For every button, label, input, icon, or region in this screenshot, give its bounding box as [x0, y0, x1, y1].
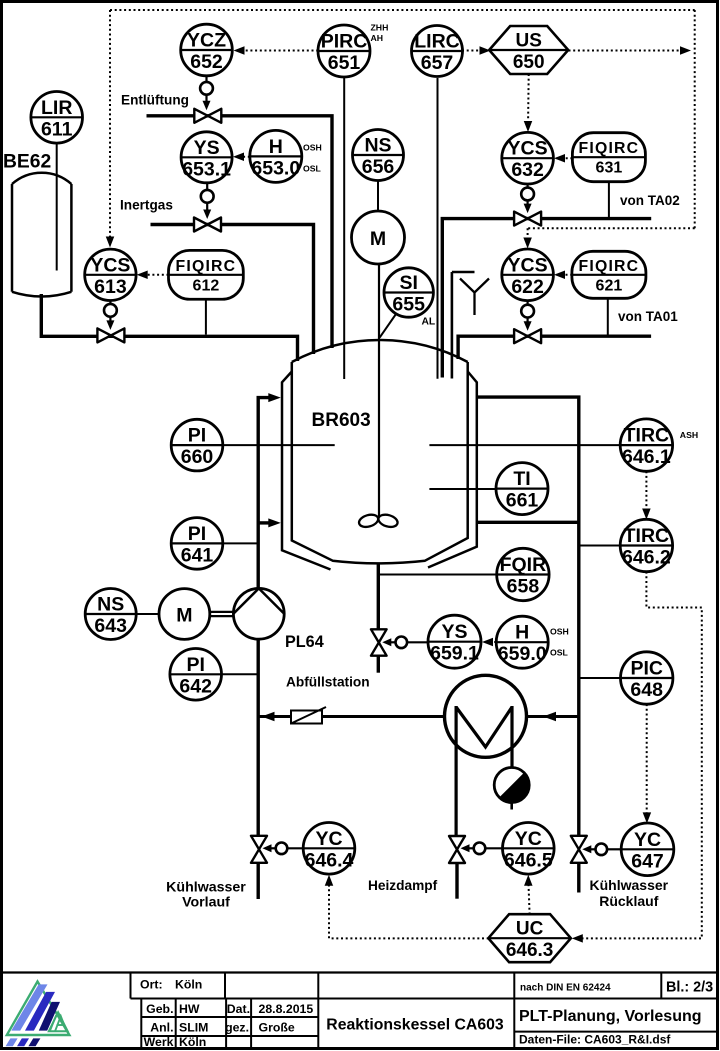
signal line UC646.3 to YC646.4: [325, 875, 489, 939]
svg-text:AL: AL: [422, 317, 436, 328]
label OSL 659: [550, 648, 569, 658]
signal line US650 to YCS632: [524, 74, 533, 132]
svg-text:nach DIN EN 62424: nach DIN EN 62424: [520, 983, 611, 994]
instrument PIRC 651: [318, 25, 370, 77]
signal line US650 output to right bus: [569, 46, 692, 55]
instrument TIRC 646.1: [620, 419, 672, 471]
svg-text:Daten-File: CA603_R&I.dsf: Daten-File: CA603_R&I.dsf: [519, 1033, 671, 1047]
svg-text:ZHH: ZHH: [371, 23, 389, 33]
svg-text:YCS: YCS: [508, 138, 548, 160]
signal line PIRC651 to YCZ652: [234, 46, 319, 55]
svg-text:612: 612: [193, 277, 220, 294]
svg-text:641: 641: [181, 544, 214, 566]
signal line PIC648 to YC647: [643, 704, 652, 823]
pump PL64: [233, 588, 284, 639]
instrument LIRC 657: [412, 26, 463, 77]
svg-text:661: 661: [506, 490, 539, 512]
title text Ort: [140, 978, 202, 992]
svg-text:613: 613: [94, 276, 127, 298]
signal line TIRC646.2 to UC646.3: [572, 572, 702, 943]
svg-text:658: 658: [507, 576, 540, 598]
arrow into HX: [543, 712, 556, 722]
svg-text:AH: AH: [371, 33, 384, 43]
svg-text:611: 611: [41, 118, 73, 140]
svg-text:Inertgas: Inertgas: [120, 198, 173, 213]
svg-text:646.2: 646.2: [622, 547, 671, 569]
svg-text:BR603: BR603: [312, 410, 371, 431]
actuator YCS622 valve: [521, 301, 534, 331]
line TI661 tap: [429, 488, 496, 490]
svg-text:Bl.: 2/3: Bl.: 2/3: [666, 980, 713, 996]
valve BE62 outlet: [97, 328, 124, 342]
svg-text:646.5: 646.5: [504, 849, 553, 871]
label Entlueftung: [121, 93, 189, 108]
svg-text:653.1: 653.1: [182, 158, 231, 180]
instrument YCS 622: [502, 249, 554, 301]
svg-text:631: 631: [596, 160, 623, 177]
instrument YCZ 652: [181, 24, 233, 76]
label Heizdampf: [368, 878, 438, 893]
label OSL 653: [303, 163, 322, 173]
svg-text:Anl.: Anl.: [150, 1021, 173, 1035]
instrument YCS 613: [85, 249, 136, 300]
svg-text:Vorlauf: Vorlauf: [182, 895, 230, 911]
label von TA01: [618, 309, 678, 324]
line FIQIRC621 stem: [607, 299, 609, 334]
signal line FIQIRC621 to YCS622: [554, 271, 572, 280]
svg-text:646.1: 646.1: [622, 446, 671, 468]
label BR603: [312, 410, 371, 431]
instrument PIC 648: [621, 652, 673, 704]
svg-text:YCZ: YCZ: [187, 30, 226, 52]
svg-text:FIQIRC: FIQIRC: [176, 258, 237, 275]
signal bus top horizontal: [110, 9, 695, 11]
instrument YS 653.1: [181, 132, 232, 183]
svg-text:YS: YS: [441, 621, 467, 643]
svg-text:Geb.: Geb.: [146, 1002, 173, 1016]
instrument YC 647: [621, 823, 674, 876]
pipe jacket outlet upper: [477, 397, 579, 836]
signal line FIQIRC631 to YCS632: [554, 154, 572, 163]
pipe jacket feed branch lower: [258, 521, 268, 524]
svg-text:650: 650: [513, 52, 545, 73]
svg-text:632: 632: [511, 159, 544, 181]
steam trap: [494, 768, 529, 810]
svg-text:NS: NS: [97, 594, 124, 616]
svg-text:Reaktionskessel CA603: Reaktionskessel CA603: [326, 1017, 504, 1034]
line PI660 tap: [223, 444, 335, 446]
sampling funnel: [460, 279, 489, 316]
pipe cooling water return below valve: [577, 863, 580, 893]
pipe funnel drain line: [452, 272, 475, 379]
heat exchanger shell: [445, 675, 527, 757]
svg-text:28.8.2015: 28.8.2015: [259, 1002, 314, 1016]
svg-text:621: 621: [596, 277, 623, 294]
pipe HX process left: [258, 715, 445, 718]
svg-text:Rücklauf: Rücklauf: [599, 893, 658, 909]
svg-text:659.0: 659.0: [498, 643, 547, 665]
svg-text:YC: YC: [515, 828, 542, 850]
instrument H 659.0: [496, 616, 548, 668]
line NS656 to motor: [377, 181, 379, 211]
restriction orifice: [291, 707, 326, 724]
pipe Inertgas: [151, 225, 314, 355]
signal bus right vertical: [694, 10, 696, 228]
svg-text:Köln: Köln: [175, 978, 202, 992]
svg-text:LIRC: LIRC: [414, 31, 460, 53]
svg-text:OSH: OSH: [550, 627, 569, 637]
pipe cooling water inlet below valve: [257, 863, 260, 899]
arrow HX process left: [262, 712, 275, 722]
label AH 651: [371, 33, 384, 43]
signal line UC646.3 to YC646.5: [524, 875, 533, 915]
title text PLT-Planung: [519, 1008, 702, 1025]
actuator YC647 valve: [582, 844, 621, 856]
instrument FQIR 658: [497, 548, 549, 600]
line TIRC646.2 tap: [579, 545, 620, 547]
line agitator shaft: [378, 264, 380, 518]
line FIQIRC612 stem: [205, 300, 207, 335]
pipe pump discharge to jacket: [258, 398, 268, 589]
arrow into jacket lower: [268, 518, 281, 527]
signal line bus to YCS613: [106, 10, 115, 248]
line TIRC646.1 tap: [429, 444, 620, 446]
line FQIR658 tap: [378, 574, 497, 576]
svg-text:H: H: [269, 136, 283, 158]
arrow into jacket upper: [268, 393, 281, 402]
instrument UC 646.3: [488, 914, 570, 962]
svg-text:von TA01: von TA01: [618, 309, 678, 324]
instrument YCS 632: [502, 132, 554, 184]
instrument LIR 611: [31, 92, 83, 144]
pipe jacket outlet lower: [477, 521, 579, 524]
svg-text:Werk: Werk: [144, 1035, 174, 1049]
actuator YCS613 valve: [104, 300, 117, 330]
svg-text:646.4: 646.4: [305, 849, 354, 871]
instrument TIRC 646.2: [620, 519, 672, 571]
svg-text:Kühlwasser: Kühlwasser: [590, 877, 669, 893]
instrument PI 642: [170, 649, 222, 701]
svg-text:OSL: OSL: [303, 163, 322, 173]
svg-text:LIR: LIR: [41, 97, 72, 119]
svg-text:656: 656: [362, 156, 395, 178]
valve von TA01: [514, 329, 541, 343]
svg-text:660: 660: [181, 446, 214, 468]
svg-text:653.0: 653.0: [251, 157, 300, 179]
instrument SI 655: [384, 268, 433, 317]
svg-text:Dat.: Dat.: [227, 1002, 250, 1016]
svg-text:PIRC: PIRC: [321, 31, 368, 53]
signal line H659.0 to YS659.1: [482, 638, 496, 647]
line LIR611 dip tube: [56, 143, 58, 271]
svg-text:655: 655: [392, 294, 425, 316]
vessel BR603 shell: [292, 362, 468, 563]
valve Entlueftung: [194, 109, 221, 123]
label ZHH 651: [371, 23, 389, 33]
pipe steam below valve: [455, 863, 458, 899]
svg-text:642: 642: [179, 675, 212, 697]
svg-text:643: 643: [94, 615, 127, 637]
valve steam: [449, 836, 465, 863]
line FIQIRC631 stem: [608, 182, 610, 217]
svg-text:Kühlwasser: Kühlwasser: [166, 880, 246, 896]
svg-text:Große: Große: [259, 1021, 295, 1035]
svg-text:NS: NS: [364, 135, 391, 157]
svg-text:PIC: PIC: [630, 658, 663, 680]
instrument PI 641: [171, 518, 223, 570]
label Kuehlwasser Vorlauf: [166, 880, 246, 911]
title block grid: [2, 973, 718, 1048]
svg-text:OSH: OSH: [303, 143, 322, 153]
line PI641 tap: [223, 542, 257, 544]
actuator YS653.1 valve: [201, 183, 214, 219]
line PIC648 tap: [579, 677, 621, 679]
pipe Entlueftung: [147, 116, 333, 348]
svg-text:YC: YC: [634, 829, 661, 851]
svg-text:659.1: 659.1: [430, 643, 479, 665]
motor M pump: [159, 589, 210, 640]
pipe BE62 outlet: [41, 294, 297, 361]
vessel BE62 shell: [12, 173, 71, 297]
title text Daten-File: [519, 1033, 671, 1047]
pipe HX process right: [527, 715, 579, 718]
label OSH 659: [550, 627, 569, 637]
logo triangles: [6, 982, 70, 1047]
label OSH 653: [303, 143, 322, 153]
line NS643 to motor: [136, 613, 159, 615]
svg-text:FQIR: FQIR: [500, 554, 547, 576]
actuator YCZ652 valve: [200, 76, 213, 111]
svg-text:646.3: 646.3: [506, 940, 554, 961]
instrument FIQIRC 631: [572, 133, 645, 182]
svg-text:622: 622: [511, 276, 544, 298]
valve cooling water return: [571, 836, 587, 863]
svg-text:657: 657: [421, 52, 454, 74]
title text Geb row: [146, 1002, 313, 1016]
svg-text:M: M: [370, 228, 386, 250]
signal line H653.0 to YS653.1: [233, 153, 250, 162]
instrument YC 646.5: [503, 823, 555, 875]
label Kuehlwasser Ruecklauf: [590, 877, 669, 909]
svg-text:US: US: [515, 31, 541, 52]
svg-text:Ort:: Ort:: [140, 978, 163, 992]
title text Reaktionskessel: [326, 1017, 504, 1034]
instrument NS 656: [353, 130, 404, 181]
svg-text:HW: HW: [179, 1002, 200, 1016]
svg-text:YS: YS: [194, 137, 220, 159]
actuator YC646.5 valve: [461, 843, 503, 855]
label PL64: [285, 633, 324, 651]
svg-text:FIQIRC: FIQIRC: [579, 258, 640, 275]
coupling motor-pump: [210, 612, 233, 616]
valve Abfuellstation: [371, 629, 387, 655]
title text Anl row: [150, 1021, 295, 1035]
instrument PI 660: [171, 419, 223, 471]
svg-text:YCS: YCS: [90, 254, 130, 276]
svg-text:647: 647: [631, 850, 664, 872]
svg-text:OSL: OSL: [550, 648, 569, 658]
svg-text:PLT-Planung, Vorlesung: PLT-Planung, Vorlesung: [519, 1008, 702, 1025]
svg-text:UC: UC: [516, 919, 544, 940]
svg-text:Abfüllstation: Abfüllstation: [286, 675, 370, 690]
label AL 655: [422, 317, 436, 328]
svg-text:TIRC: TIRC: [624, 425, 670, 447]
svg-text:SLIM: SLIM: [179, 1021, 208, 1035]
signal line bus to YCS622: [523, 228, 694, 248]
svg-text:TIRC: TIRC: [624, 525, 670, 547]
actuator YCS632 valve: [521, 184, 534, 213]
svg-text:YCS: YCS: [508, 254, 548, 276]
instrument FIQIRC 621: [572, 251, 646, 298]
motor M agitator: [352, 211, 405, 264]
svg-text:BE62: BE62: [3, 152, 51, 173]
svg-text:ASH: ASH: [680, 430, 698, 440]
line SI655 to shaft: [380, 314, 396, 338]
label Abfuellstation: [286, 675, 370, 690]
svg-text:M: M: [176, 605, 192, 627]
heat exchanger coil: [456, 706, 512, 836]
label ASH 646.1: [680, 430, 698, 440]
vessel BR603 dome: [292, 340, 468, 362]
svg-text:YC: YC: [315, 828, 342, 850]
title text nach DIN: [520, 983, 611, 994]
svg-text:gez.: gez.: [225, 1021, 249, 1035]
instrument YC 646.4: [303, 823, 355, 875]
signal line FIQIRC612 to YCS613: [137, 271, 169, 280]
svg-text:Heizdampf: Heizdampf: [368, 878, 438, 893]
svg-text:PI: PI: [188, 523, 206, 545]
svg-text:PL64: PL64: [285, 633, 324, 651]
svg-text:PI: PI: [186, 654, 204, 676]
valve Inertgas: [194, 218, 221, 232]
signal line TIRC646.1 to TIRC646.2: [642, 471, 651, 519]
svg-text:von TA02: von TA02: [620, 193, 680, 208]
label Inertgas: [120, 198, 173, 213]
instrument US 650: [489, 26, 568, 74]
svg-text:Entlüftung: Entlüftung: [121, 93, 189, 108]
pipe pump suction down: [257, 639, 260, 836]
instrument YS 659.1: [428, 615, 481, 668]
svg-text:Köln: Köln: [179, 1035, 206, 1049]
svg-text:648: 648: [630, 679, 663, 701]
svg-text:651: 651: [328, 52, 361, 74]
valve cooling water inlet: [251, 836, 267, 863]
agitator impeller: [358, 513, 399, 529]
actuator YC646.4 valve: [263, 843, 304, 855]
actuator Abfuellstation valve: [382, 637, 428, 649]
pipe von TA01: [458, 336, 651, 359]
jacket BR603 left: [282, 372, 331, 570]
line PIRC651 dip tube: [343, 78, 345, 379]
jacket BR603 right: [428, 372, 477, 568]
instrument TI 661: [496, 463, 548, 515]
valve von TA02: [514, 212, 541, 226]
svg-text:FIQIRC: FIQIRC: [579, 140, 640, 157]
svg-text:652: 652: [190, 51, 223, 73]
label von TA02: [620, 193, 680, 208]
pipe reactor drain: [377, 563, 380, 630]
title text Bl: [666, 980, 713, 996]
svg-text:H: H: [515, 622, 529, 644]
title text Werk row: [144, 1035, 207, 1049]
pipe von TA02: [442, 219, 651, 378]
instrument H 653.0: [250, 130, 302, 182]
instrument FIQIRC 612: [169, 250, 244, 299]
svg-text:PI: PI: [188, 425, 206, 447]
pipe drain below valve: [377, 656, 380, 673]
line PI642 tap: [222, 673, 257, 675]
label BE62: [3, 152, 51, 173]
instrument NS 643: [85, 589, 136, 640]
svg-text:SI: SI: [399, 272, 417, 294]
line LIRC657 dip tube: [437, 78, 439, 379]
signal line LIRC657 to US650: [462, 46, 491, 55]
svg-text:TI: TI: [513, 468, 530, 490]
